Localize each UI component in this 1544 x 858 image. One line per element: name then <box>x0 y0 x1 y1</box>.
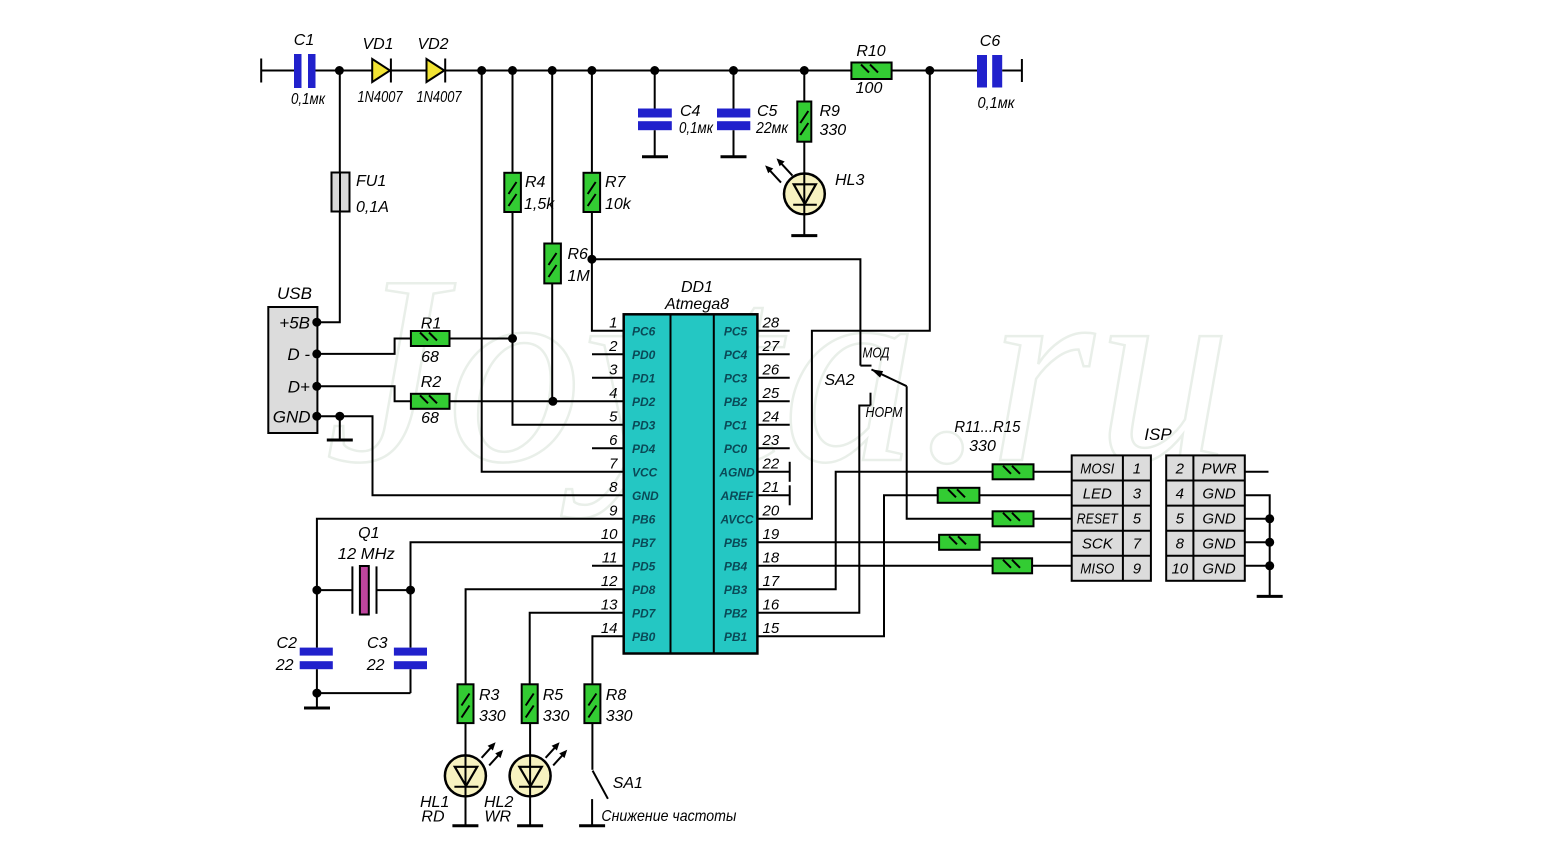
svg-text:68: 68 <box>421 410 439 427</box>
DD1 right pin numbers <box>762 314 780 637</box>
diode VD1 <box>358 36 404 106</box>
svg-text:R1: R1 <box>421 316 441 333</box>
svg-text:+5B: +5B <box>279 314 310 333</box>
svg-text:R7: R7 <box>605 174 627 191</box>
svg-text:D+: D+ <box>288 378 310 397</box>
svg-text:HL3: HL3 <box>835 172 864 189</box>
resistor R9 <box>797 71 846 142</box>
node dot C5 column <box>729 66 738 75</box>
wire pin10 to crystal right node <box>411 542 624 590</box>
node dot C1/FU1 <box>335 66 344 75</box>
resistor R6 <box>544 71 590 286</box>
svg-text:22: 22 <box>275 657 294 674</box>
wire SA2 NORM to pin16 <box>757 406 870 613</box>
svg-text:22мк: 22мк <box>755 120 789 137</box>
wire R11 to ISP MOSI <box>1034 471 1072 473</box>
HL2 arrows <box>546 742 568 765</box>
node dot R6 column <box>548 66 557 75</box>
wire reset node to pin1 <box>592 259 624 331</box>
svg-text:22: 22 <box>762 455 780 472</box>
svg-text:28: 28 <box>762 314 780 331</box>
svg-text:SA1: SA1 <box>613 775 643 792</box>
svg-text:GND: GND <box>632 489 659 503</box>
switch SA1 <box>592 723 643 825</box>
svg-text:27: 27 <box>762 338 780 355</box>
node dot GND5 <box>1265 514 1274 523</box>
svg-text:330: 330 <box>606 708 633 725</box>
svg-text:10k: 10k <box>605 196 632 213</box>
svg-text:PC1: PC1 <box>724 418 748 432</box>
svg-text:НОРМ: НОРМ <box>866 404 903 421</box>
ground HL2 <box>517 824 543 827</box>
svg-text:AVCC: AVCC <box>719 512 753 526</box>
wire MOSI row to pin17 <box>757 472 992 590</box>
svg-text:C2: C2 <box>277 635 298 652</box>
resistor R2 <box>411 374 450 427</box>
svg-text:R6: R6 <box>568 246 589 263</box>
DD1 right pin labels <box>718 324 755 644</box>
HL3 arrows <box>765 158 792 182</box>
wire R13 to ISP RESET <box>1034 518 1072 520</box>
svg-text:21: 21 <box>762 479 780 496</box>
left input terminal <box>260 59 262 83</box>
svg-text:LED: LED <box>1083 486 1112 503</box>
resistor R1 <box>411 316 450 367</box>
right output terminal <box>1021 59 1023 82</box>
node dot Q1 left <box>312 586 321 595</box>
svg-text:PD2: PD2 <box>632 395 656 409</box>
wire reset node to SA2 MOD <box>592 259 861 365</box>
wire GND5 <box>1245 518 1270 520</box>
svg-text:D -: D - <box>287 345 310 364</box>
wire R7 to reset node <box>591 212 593 259</box>
svg-text:FU1: FU1 <box>356 173 386 190</box>
wire pin9 to crystal left node <box>317 519 624 590</box>
svg-text:PC4: PC4 <box>724 348 748 362</box>
svg-text:R4: R4 <box>525 174 546 191</box>
svg-text:13: 13 <box>601 596 618 613</box>
svg-text:24: 24 <box>762 408 780 425</box>
node dot R7 column <box>587 66 596 75</box>
svg-text:GND: GND <box>1202 561 1236 578</box>
wire pin13 to R5 <box>530 613 624 685</box>
ground C2/C3 <box>304 693 330 708</box>
wire VCC column to pin7 <box>482 71 624 472</box>
resistor R3 <box>458 684 506 725</box>
svg-text:AREF: AREF <box>720 489 754 503</box>
svg-text:2: 2 <box>1175 461 1185 478</box>
svg-text:PC5: PC5 <box>724 324 748 338</box>
svg-text:R8: R8 <box>606 687 627 704</box>
svg-text:PB2: PB2 <box>724 395 748 409</box>
node dot reset <box>587 255 596 264</box>
wire D- to R1 <box>317 339 411 354</box>
resistor R11 <box>993 464 1034 479</box>
wire VD1 to VD2 <box>391 70 427 72</box>
DD1 left pin numbers <box>601 314 618 637</box>
svg-text:PB4: PB4 <box>724 559 748 573</box>
svg-text:12: 12 <box>601 573 618 590</box>
svg-text:4: 4 <box>1176 486 1184 503</box>
svg-text:RESET: RESET <box>1077 511 1120 528</box>
svg-text:9: 9 <box>609 502 618 519</box>
wire pin19 to R14 <box>757 541 939 543</box>
wire C3 to C2 ground node <box>317 692 411 694</box>
svg-text:1: 1 <box>1133 461 1141 478</box>
capacitor C1 <box>291 32 326 108</box>
svg-text:68: 68 <box>421 349 439 366</box>
svg-text:GND: GND <box>1202 511 1236 528</box>
svg-text:19: 19 <box>763 526 780 543</box>
svg-text:C5: C5 <box>757 103 778 120</box>
svg-text:SA2: SA2 <box>824 372 854 389</box>
svg-text:9: 9 <box>1133 561 1142 578</box>
svg-text:0,1мк: 0,1мк <box>978 95 1016 112</box>
ISP header right block <box>1166 455 1245 580</box>
node dot R2/R6 <box>548 397 557 406</box>
wire R6 to R2 node <box>551 283 553 401</box>
svg-text:WR: WR <box>484 809 511 826</box>
svg-text:R9: R9 <box>820 103 841 120</box>
wire GND to pin8 <box>317 416 624 495</box>
svg-text:ISP: ISP <box>1144 425 1172 444</box>
wire ISP GND bus <box>1245 495 1270 596</box>
svg-text:PD5: PD5 <box>632 559 656 573</box>
svg-text:Q1: Q1 <box>358 525 379 542</box>
node dot VCC column <box>477 66 486 75</box>
pin dot +5B <box>312 318 321 327</box>
node dot C2/C3 ground <box>312 689 321 698</box>
wire GND10 <box>1245 565 1270 567</box>
resistor R15 <box>993 558 1033 573</box>
svg-text:330: 330 <box>969 438 996 455</box>
ground SA1 <box>579 824 605 827</box>
resistor R7 <box>584 71 632 214</box>
wire D+ to R2 <box>317 386 411 401</box>
svg-text:PC6: PC6 <box>632 324 656 338</box>
wire R14 to ISP SCK <box>980 541 1072 543</box>
svg-text:20: 20 <box>762 502 780 519</box>
svg-text:Снижение частоты: Снижение частоты <box>601 808 736 825</box>
wire R4 node to pin5 <box>513 339 624 425</box>
ground HL1 <box>452 824 478 827</box>
resistor R8 <box>584 684 632 725</box>
svg-text:5: 5 <box>609 408 618 425</box>
svg-text:5: 5 <box>1176 511 1185 528</box>
svg-text:26: 26 <box>762 361 780 378</box>
LED HL3 <box>784 142 864 235</box>
svg-text:VCC: VCC <box>632 465 658 479</box>
svg-text:USB: USB <box>277 284 312 303</box>
node dot GND10 <box>1265 561 1274 570</box>
svg-text:R2: R2 <box>421 374 442 391</box>
svg-text:8: 8 <box>609 479 618 496</box>
svg-text:4: 4 <box>609 385 617 402</box>
svg-text:3: 3 <box>609 361 618 378</box>
svg-text:VD1: VD1 <box>362 36 393 53</box>
wire AVCC from rail <box>757 71 929 519</box>
svg-text:17: 17 <box>763 573 780 590</box>
svg-text:PD7: PD7 <box>632 606 657 620</box>
svg-text:3: 3 <box>1133 486 1142 503</box>
svg-text:1: 1 <box>609 314 617 331</box>
capacitor C4 <box>638 71 714 157</box>
svg-text:R5: R5 <box>543 687 564 704</box>
node dot GND ground <box>335 412 344 421</box>
ground USB <box>327 416 353 440</box>
svg-text:6: 6 <box>609 432 618 449</box>
svg-text:PC0: PC0 <box>724 442 748 456</box>
svg-text:C1: C1 <box>294 32 314 49</box>
LED HL1 <box>420 723 486 825</box>
svg-text:PD1: PD1 <box>632 371 656 385</box>
svg-text:7: 7 <box>1133 536 1142 553</box>
svg-text:10: 10 <box>1171 561 1188 578</box>
svg-text:18: 18 <box>763 549 780 566</box>
svg-text:PB0: PB0 <box>632 630 656 644</box>
node dot R1/R4 <box>508 334 517 343</box>
svg-text:330: 330 <box>543 708 570 725</box>
svg-text:22: 22 <box>366 657 385 674</box>
ground C4 <box>642 155 668 158</box>
svg-text:C4: C4 <box>680 103 701 120</box>
resistor R12 <box>938 488 980 503</box>
svg-text:GND: GND <box>273 407 311 426</box>
node dot R9 column <box>800 66 809 75</box>
svg-text:0,1мк: 0,1мк <box>291 91 326 108</box>
diode VD2 <box>417 36 463 106</box>
ISP header left block <box>1072 455 1151 580</box>
pin dot D- <box>312 349 321 358</box>
wire rail to FU1 and +5B <box>317 71 340 323</box>
switch SA2 <box>824 345 906 422</box>
svg-text:GND: GND <box>1202 536 1236 553</box>
svg-text:PB2: PB2 <box>724 606 748 620</box>
svg-text:0,1мк: 0,1мк <box>679 120 714 137</box>
wire R10 to C6 <box>892 70 977 72</box>
svg-text:12 MHz: 12 MHz <box>338 546 395 563</box>
svg-text:DD1: DD1 <box>681 279 713 296</box>
fuse FU1 <box>332 173 389 217</box>
svg-text:1N4007: 1N4007 <box>417 89 463 106</box>
DD1 left pin stubs <box>592 354 624 566</box>
svg-text:MOSI: MOSI <box>1080 461 1114 478</box>
wire pin12 to R3 <box>466 589 624 684</box>
wire rail VD2 to R10 <box>445 70 851 72</box>
capacitor C2 <box>275 590 333 693</box>
node dot GND8 <box>1265 538 1274 547</box>
wire LED row to pin15 <box>757 495 937 636</box>
svg-text:VD2: VD2 <box>417 36 448 53</box>
wire pin14 to R8 <box>592 636 623 684</box>
wire GND8 <box>1245 541 1270 543</box>
USB connector <box>268 284 317 433</box>
wire R12 to ISP LED <box>979 494 1071 496</box>
svg-text:R10: R10 <box>856 43 885 60</box>
svg-text:PB5: PB5 <box>724 536 748 550</box>
svg-text:SCK: SCK <box>1082 536 1114 553</box>
svg-text:14: 14 <box>601 620 618 637</box>
svg-text:C6: C6 <box>980 33 1001 50</box>
svg-text:7: 7 <box>609 455 618 472</box>
svg-text:PB1: PB1 <box>724 630 748 644</box>
pin dot GND <box>312 412 321 421</box>
svg-text:AGND: AGND <box>718 465 755 479</box>
svg-text:PC3: PC3 <box>724 371 748 385</box>
wire R2 to R6 node and pin4 <box>450 400 624 402</box>
LED HL2 <box>484 723 551 825</box>
resistor R13 <box>993 511 1034 526</box>
svg-text:C3: C3 <box>367 635 388 652</box>
svg-text:16: 16 <box>763 596 780 613</box>
pin21 AREF tick <box>789 485 791 505</box>
svg-text:GND: GND <box>1202 486 1236 503</box>
wire R1 to R4 node <box>450 338 513 340</box>
ground HL3 <box>791 234 817 237</box>
DD1 left pin labels <box>632 324 659 644</box>
svg-text:PD3: PD3 <box>632 418 656 432</box>
svg-text:PB6: PB6 <box>632 512 656 526</box>
svg-text:PB3: PB3 <box>724 583 748 597</box>
wire pin18 to R15 <box>757 565 992 567</box>
svg-text:330: 330 <box>820 122 847 139</box>
svg-text:23: 23 <box>762 432 780 449</box>
node dot AVCC column <box>925 66 934 75</box>
svg-text:RD: RD <box>421 809 445 826</box>
capacitor C6 <box>977 33 1016 112</box>
svg-text:PD4: PD4 <box>632 442 656 456</box>
DD1 right pin stubs <box>757 331 789 496</box>
pin22 AGND tick <box>789 462 791 482</box>
svg-text:100: 100 <box>856 80 883 97</box>
wire R4 to R1 node <box>512 212 514 339</box>
svg-text:PD0: PD0 <box>632 348 656 362</box>
svg-text:0,1A: 0,1A <box>356 199 389 216</box>
node dot Q1 right <box>406 586 415 595</box>
svg-text:R3: R3 <box>479 687 500 704</box>
wire C1 to VD1 <box>316 70 373 72</box>
resistor R5 <box>522 684 570 725</box>
ground ISP <box>1257 595 1283 598</box>
svg-text:1M: 1M <box>568 268 591 285</box>
svg-text:1,5k: 1,5k <box>524 196 555 213</box>
svg-text:11: 11 <box>602 549 618 566</box>
HL1 arrows <box>482 742 504 765</box>
svg-text:5: 5 <box>1133 511 1142 528</box>
svg-text:15: 15 <box>763 620 780 637</box>
resistor R10 <box>851 43 891 97</box>
capacitor C3 <box>366 590 427 693</box>
svg-text:PD8: PD8 <box>632 583 656 597</box>
IC DD1 ATmega8 <box>624 279 758 654</box>
wire C6 to terminal <box>1002 70 1022 72</box>
svg-text:2: 2 <box>608 338 618 355</box>
node dot R4 column <box>508 66 517 75</box>
svg-text:PB7: PB7 <box>632 536 657 550</box>
svg-text:Atmega8: Atmega8 <box>664 296 729 313</box>
resistor R14 <box>939 535 980 550</box>
svg-text:R11...R15: R11...R15 <box>954 419 1020 436</box>
node dot C4 column <box>650 66 659 75</box>
wire R15 to ISP MISO <box>1032 565 1072 567</box>
wire rail left to C1 <box>261 70 294 72</box>
capacitor C5 <box>717 71 789 157</box>
svg-text:1N4007: 1N4007 <box>358 89 404 106</box>
svg-text:330: 330 <box>479 708 506 725</box>
pin dot D+ <box>312 382 321 391</box>
svg-text:25: 25 <box>762 385 780 402</box>
svg-text:МОД: МОД <box>863 345 890 362</box>
svg-text:PWR: PWR <box>1202 461 1237 478</box>
resistor R4 <box>504 71 555 214</box>
wire SA2 pole to RESET row <box>907 386 993 519</box>
wire ISP PWR stub <box>1245 471 1269 473</box>
crystal Q1 <box>317 525 411 615</box>
svg-text:10: 10 <box>601 526 618 543</box>
svg-text:MISO: MISO <box>1080 561 1114 578</box>
ground C5 <box>721 155 747 158</box>
svg-text:8: 8 <box>1176 536 1185 553</box>
